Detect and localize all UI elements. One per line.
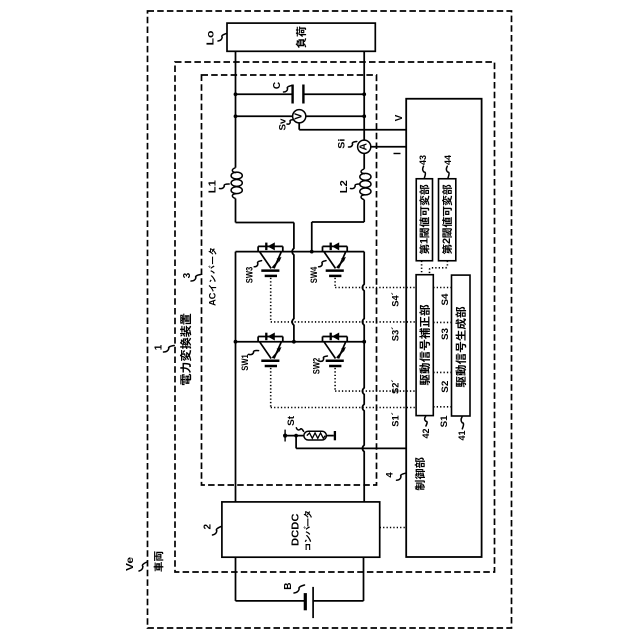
svg-text:L2: L2	[339, 180, 350, 193]
svg-text:S3: S3	[440, 328, 451, 340]
svg-text:2: 2	[202, 523, 213, 529]
svg-text:DCDC: DCDC	[291, 513, 302, 546]
svg-text:41: 41	[457, 431, 467, 441]
svg-text:S1´: S1´	[390, 412, 401, 427]
svg-text:S3´: S3´	[390, 327, 401, 342]
svg-text:C: C	[208, 292, 218, 299]
svg-text:V: V	[394, 114, 405, 121]
svg-text:SW1: SW1	[240, 354, 251, 371]
svg-text:S2´: S2´	[390, 379, 401, 394]
svg-text:3: 3	[182, 272, 193, 278]
svg-text:V: V	[294, 113, 305, 120]
svg-text:S2: S2	[440, 381, 451, 393]
svg-text:B: B	[283, 582, 294, 589]
svg-text:SW4: SW4	[309, 266, 320, 283]
svg-text:Si: Si	[337, 139, 348, 149]
svg-text:L1: L1	[208, 180, 219, 193]
svg-text:Lo: Lo	[206, 31, 217, 46]
svg-text:St: St	[286, 415, 297, 426]
svg-text:44: 44	[443, 155, 453, 165]
svg-text:S4´: S4´	[390, 292, 401, 307]
svg-text:43: 43	[418, 155, 428, 165]
svg-text:1: 1	[418, 238, 430, 244]
svg-text:S4: S4	[440, 293, 451, 306]
svg-text:42: 42	[421, 429, 431, 439]
svg-text:1: 1	[153, 344, 164, 350]
svg-text:I: I	[393, 152, 404, 155]
svg-text:4: 4	[384, 472, 395, 478]
svg-text:Ve: Ve	[125, 556, 136, 571]
svg-text:C: C	[272, 82, 283, 89]
svg-text:A: A	[359, 142, 370, 150]
svg-text:SW2: SW2	[311, 358, 322, 375]
svg-text:SW3: SW3	[245, 267, 256, 284]
svg-text:2: 2	[441, 238, 453, 244]
svg-text:S1: S1	[439, 415, 450, 428]
